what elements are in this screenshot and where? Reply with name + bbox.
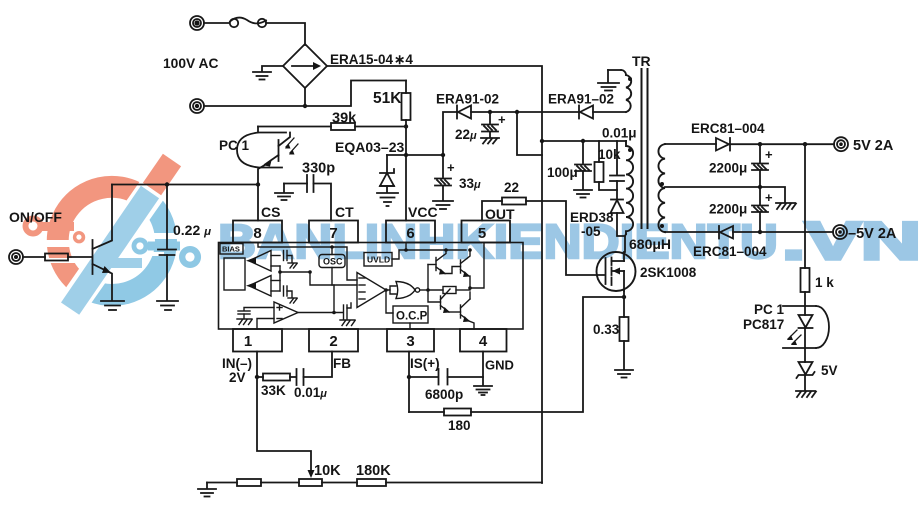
op-amp A2: [246, 276, 280, 297]
svg-text:+: +: [447, 160, 455, 175]
wire bridge left to ground: [262, 66, 283, 71]
node amp out: [332, 311, 336, 315]
wire comp to OCP: [386, 290, 393, 313]
wire to out pin: [470, 243, 484, 289]
svg-text:VCC: VCC: [408, 204, 438, 220]
ground 100u: [574, 190, 592, 198]
wire amps to comparator: [279, 266, 281, 291]
svg-text:OUT: OUT: [485, 206, 515, 222]
svg-text:8: 8: [253, 225, 261, 242]
ground bias winding: [598, 70, 619, 91]
wire: [266, 23, 305, 45]
wire -5V out: [760, 231, 833, 233]
wire VCC to ERA91: [443, 112, 457, 155]
wire gate: [526, 201, 604, 275]
wire divider tap: [257, 377, 311, 472]
IC internals: [220, 243, 484, 330]
capacitor 0.22u: [158, 185, 176, 301]
resistor 22: [502, 198, 526, 205]
winding TR secondary: [658, 144, 665, 232]
wire: [322, 482, 357, 484]
terminal ON/OFF: [9, 250, 23, 264]
wire source sense: [471, 297, 624, 412]
capacitor 0.01u snubber: [610, 141, 624, 199]
resistor 0.33: [620, 291, 629, 369]
svg-text:ERA91-02: ERA91-02: [436, 92, 499, 107]
node rail-100u: [581, 139, 585, 143]
resistor 39k: [258, 123, 406, 132]
resistor 33K: [257, 374, 296, 381]
logo red stripe tip: [143, 154, 181, 195]
wire IS+: [408, 377, 410, 412]
pin 7 box: [309, 221, 358, 243]
optocoupler PC1 phototransistor: [237, 133, 290, 185]
wire OSC out: [331, 268, 333, 286]
BIAS box: [220, 244, 243, 255]
node 0.22u: [165, 182, 169, 186]
svg-text:PC 1: PC 1: [219, 138, 250, 153]
svg-text:ERC81–004: ERC81–004: [693, 244, 767, 259]
wire amp out up: [333, 285, 335, 313]
wire +5V rail: [760, 143, 834, 145]
svg-text:10k: 10k: [598, 147, 621, 162]
terminal -5V: [833, 225, 847, 239]
wire VCC rail: [387, 154, 443, 156]
UVLO box: [364, 253, 392, 267]
zener EQA03-23: [380, 155, 394, 192]
WATERMARK-TEXT: [218, 212, 921, 271]
wire OUT pin: [482, 201, 502, 221]
wire VCC node: [405, 127, 407, 156]
svg-text:680μH: 680μH: [629, 236, 671, 252]
logo red trace: [41, 222, 74, 231]
bias rect: [224, 258, 245, 290]
svg-text:22: 22: [504, 180, 519, 195]
node VCC internal: [404, 248, 408, 252]
ground pin4: [474, 386, 492, 395]
ground zener: [377, 193, 398, 206]
svg-text:PC817: PC817: [743, 317, 784, 332]
capacitor ref2 with ground: [284, 286, 298, 303]
node bridge-AC2: [303, 104, 307, 108]
LED PC817: [799, 306, 813, 348]
diode ERC81-004 bottom: [719, 226, 760, 239]
svg-text:EQA03–23: EQA03–23: [335, 139, 404, 155]
capacitor 2200u top: [752, 144, 768, 187]
fuse F1: [230, 18, 266, 28]
svg-text:3: 3: [406, 333, 414, 350]
optocoupler PC817 LED side: [783, 306, 829, 348]
svg-text:2200μ: 2200μ: [709, 161, 747, 176]
svg-text:ON/OFF: ON/OFF: [9, 209, 62, 225]
node 2200u top: [758, 142, 762, 146]
resistor base ON/OFF: [23, 254, 92, 261]
svg-text:FB: FB: [333, 356, 351, 371]
svg-text:33μ: 33μ: [459, 176, 481, 191]
resistor internal: [428, 287, 470, 294]
logo white stripe gap: [54, 142, 193, 323]
svg-text:39k: 39k: [332, 111, 357, 127]
svg-text:ERA91–02: ERA91–02: [548, 92, 614, 107]
resistor 1k: [801, 144, 810, 306]
svg-text:ERA15-04∗4: ERA15-04∗4: [330, 52, 413, 67]
IC body TL494-style: [219, 243, 524, 330]
svg-text:22μ: 22μ: [455, 127, 477, 142]
terminal +5V: [834, 137, 848, 151]
svg-text:OSC: OSC: [323, 257, 343, 267]
wire: [261, 482, 299, 484]
wire CS rail: [112, 184, 258, 186]
svg-text:7: 7: [329, 225, 337, 242]
logo blue pad large: [179, 246, 201, 268]
capacitor ref1 with ground: [284, 251, 298, 269]
node 2V: [255, 375, 259, 379]
svg-text:0.01μ: 0.01μ: [294, 385, 327, 400]
pin 5 box: [462, 221, 511, 243]
node 51K-39k: [404, 124, 408, 128]
transformer core TR: [642, 69, 648, 228]
O.C.P box: [393, 306, 428, 323]
svg-text:2SK1008: 2SK1008: [640, 265, 697, 280]
wire secondary top rail: [665, 143, 716, 145]
node rail-corner: [540, 139, 544, 143]
svg-text:0.33: 0.33: [593, 322, 620, 337]
svg-text:33K: 33K: [261, 383, 286, 398]
svg-text:ERD38: ERD38: [570, 210, 614, 225]
wire mid rail: [665, 187, 785, 202]
wire pin3: [408, 352, 410, 378]
capacitor 6800p: [409, 369, 483, 385]
wire OR out: [420, 289, 428, 291]
light arrows PC817: [787, 330, 801, 345]
wire rail to drivers: [406, 249, 466, 251]
logo red pad large: [23, 216, 44, 237]
svg-text:GND: GND: [485, 358, 514, 373]
logo blue trace mid: [148, 242, 180, 251]
svg-text:5V: 5V: [821, 363, 838, 378]
capacitor 0.01u FB: [297, 352, 333, 386]
wire bridge bottom: [304, 88, 306, 106]
node driver top: [444, 248, 448, 252]
node IS+: [407, 375, 411, 379]
winding TR bias: [608, 70, 632, 112]
wiper arrow 10K: [308, 470, 315, 478]
svg-text:–5V 2A: –5V 2A: [848, 226, 897, 242]
capacitor 33u: [435, 155, 451, 200]
svg-text:180: 180: [448, 418, 471, 433]
svg-text:2200μ: 2200μ: [709, 202, 747, 217]
svg-text:1: 1: [244, 333, 252, 350]
transistor Qd: [449, 292, 474, 329]
ground Q emitter: [101, 301, 124, 310]
diode ERD38-05: [611, 200, 626, 237]
transistor Qa: [428, 250, 446, 290]
MOSFET 2SK1008: [597, 252, 636, 291]
wire CS: [257, 185, 259, 221]
node emitter join: [468, 286, 472, 290]
node source: [622, 295, 626, 299]
resistor 10K pot: [299, 479, 322, 486]
ground 0.22u: [157, 301, 178, 310]
ground zener hatched: [796, 391, 816, 397]
logo red pad small: [73, 231, 85, 243]
wire B+ bus: [327, 66, 542, 141]
node VCC-33u: [441, 153, 445, 157]
ground divider: [198, 483, 216, 497]
wire amp to comp: [280, 272, 357, 285]
pin 6 box: [386, 221, 435, 243]
node FB tap: [515, 110, 519, 114]
svg-text:0.01μ: 0.01μ: [602, 126, 637, 141]
pin 2 box: [309, 329, 358, 352]
wire: [204, 22, 229, 24]
svg-text:100μ: 100μ: [547, 165, 578, 180]
resistor 180: [409, 409, 471, 416]
WATERMARK-LOGO: [23, 142, 201, 323]
capacitor 2200u bottom: [752, 187, 768, 232]
wire VCC internal rail: [405, 243, 407, 251]
wire drain: [625, 234, 626, 252]
svg-text:O.C.P: O.C.P: [396, 311, 428, 323]
logo red ring arc: [58, 187, 139, 283]
wire amp- input to pin1: [257, 319, 274, 330]
svg-text:CS: CS: [261, 204, 280, 220]
wire CS internal: [258, 243, 357, 281]
svg-text:51K: 51K: [373, 90, 402, 107]
svg-text:IS(+): IS(+): [410, 356, 440, 371]
svg-text:PC 1: PC 1: [754, 302, 785, 317]
bridge rectifier ERA15-04*4: [283, 44, 327, 88]
wire divider to bus: [386, 482, 542, 484]
resistor 10k snubber: [595, 141, 618, 190]
node mid-cap: [758, 185, 762, 189]
logo blue pad mid: [132, 238, 149, 255]
resistor 180K: [357, 479, 386, 486]
ground 33u: [433, 201, 453, 209]
wire divider rail: [207, 482, 237, 484]
wire UVLO to VCC: [392, 250, 406, 259]
wire pin1: [256, 352, 258, 378]
svg-text:BIAS: BIAS: [222, 245, 240, 254]
node CT internal: [330, 245, 334, 249]
wire OCP to pin3: [409, 323, 411, 329]
OSC box: [319, 255, 345, 268]
diode ERA91-02 first: [457, 106, 490, 119]
pin 4 box: [460, 329, 507, 352]
pin 3 box: [387, 329, 434, 352]
svg-text:+: +: [498, 112, 506, 127]
capacitor comp with ground: [340, 303, 355, 326]
node -5V: [758, 230, 762, 234]
transistor Qc: [428, 289, 450, 313]
wire CT to OSC: [331, 247, 333, 255]
wire comp to OR: [386, 286, 396, 290]
op-amp A1: [246, 251, 280, 272]
node OR-base: [426, 288, 430, 292]
pin 8 box: [233, 221, 282, 243]
svg-text:1 k: 1 k: [815, 275, 834, 290]
logo blue arrow tip: [68, 278, 99, 297]
transistor Q ON/OFF: [93, 185, 113, 301]
svg-text:4: 4: [479, 333, 488, 350]
ground 330p: [275, 193, 293, 200]
comparator PWM: [357, 273, 386, 308]
svg-text:10K: 10K: [314, 463, 341, 479]
svg-text:+: +: [765, 147, 773, 162]
svg-text:6: 6: [406, 225, 414, 242]
svg-text:TR: TR: [632, 53, 651, 69]
svg-text:6800p: 6800p: [425, 387, 463, 402]
svg-text:5V 2A: 5V 2A: [853, 138, 894, 154]
wire primary top rail: [542, 140, 626, 142]
svg-text:ERC81–004: ERC81–004: [691, 121, 765, 136]
diode ERC81-004 top: [716, 138, 760, 151]
logo blue stripe: [61, 186, 159, 315]
capacitor 330p: [284, 175, 331, 221]
svg-text:-05: -05: [581, 224, 601, 239]
diode ERA91-02 second: [579, 106, 626, 119]
svg-text:CT: CT: [335, 204, 354, 220]
ground 0.33: [615, 370, 633, 378]
capacitor 100u: [575, 141, 591, 189]
logo white ring cuts: [38, 233, 188, 263]
winding TR primary: [626, 141, 633, 234]
svg-text:2: 2: [329, 333, 337, 350]
ground mid hatched: [776, 203, 796, 209]
wire AC bottom: [204, 81, 406, 107]
transistor Qb: [445, 250, 470, 288]
wire pin4 gnd: [482, 352, 484, 386]
pin 1 box: [233, 329, 282, 352]
node Qb top: [468, 248, 472, 252]
resistor divider-low: [237, 479, 261, 486]
node comp out: [384, 288, 388, 292]
wire -5V rail: [665, 231, 719, 233]
wire feedback bus vertical: [541, 141, 543, 483]
node CS rail: [256, 182, 260, 186]
logo blue ring arc: [89, 203, 166, 295]
svg-text:+: +: [765, 190, 773, 205]
ground bridge: [253, 72, 271, 80]
svg-text:5: 5: [478, 225, 486, 242]
svg-text:180K: 180K: [356, 463, 391, 479]
wire FB sense vertical: [517, 112, 542, 155]
logo blue bar low: [106, 258, 142, 268]
node amp rail: [278, 270, 282, 274]
zener 5V: [797, 348, 815, 390]
wire to second diode: [490, 111, 579, 113]
svg-text:IN(–): IN(–): [222, 356, 252, 371]
wire comp to OR 2: [390, 290, 396, 294]
resistor 51K: [402, 81, 411, 127]
terminal AC bottom: [190, 99, 204, 113]
wire amp+ input: [237, 308, 274, 325]
wire VCC pin: [405, 155, 407, 221]
node 22u: [488, 110, 492, 114]
OR gate: [396, 282, 420, 299]
light arrows PC1: [285, 138, 298, 155]
capacitor 22u: [481, 112, 499, 144]
node 1k tap: [803, 142, 807, 146]
svg-text:330p: 330p: [302, 161, 335, 177]
wire amp out: [298, 312, 343, 314]
error amp lower: [274, 302, 298, 323]
node comp in: [308, 270, 312, 274]
svg-text:UVLD: UVLD: [367, 255, 390, 265]
svg-text:100V AC: 100V AC: [163, 56, 219, 71]
svg-text:2V: 2V: [229, 370, 246, 385]
node VCC rail: [404, 153, 408, 157]
terminal AC top: [190, 16, 204, 30]
